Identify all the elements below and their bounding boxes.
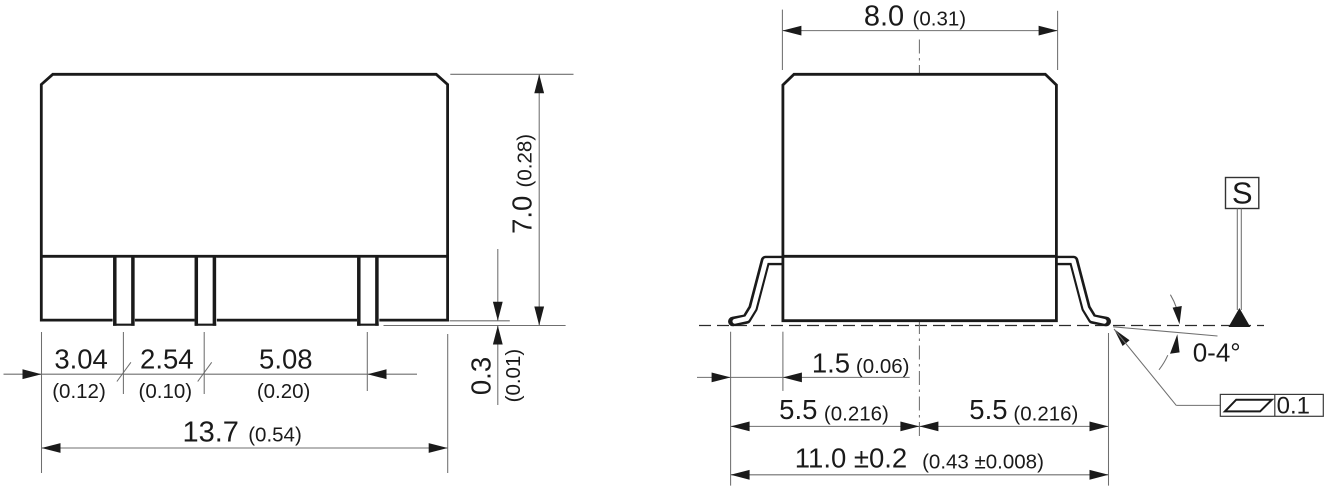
standoff dim 0.3 lower arrow: [493, 326, 503, 406]
standoff dim 0.3 upper arrow: [493, 249, 503, 321]
flatness feature control frame: [1220, 394, 1323, 416]
right view divider line: [783, 255, 1057, 258]
svg-text:0.3: 0.3: [466, 357, 497, 395]
extension line body bottom (0.3): [450, 320, 510, 322]
arrow right: [1090, 422, 1109, 432]
extension line left foot tip: [730, 332, 732, 486]
svg-text:(0.31): (0.31): [913, 8, 967, 31]
right gull-wing lead: [1053, 261, 1106, 322]
svg-text:13.7: 13.7: [182, 416, 238, 448]
arrow right at centerline: [900, 422, 919, 432]
svg-text:(0.28): (0.28): [513, 134, 536, 188]
extension line body left edge: [782, 332, 784, 391]
leader arrow to foot: [1114, 329, 1220, 405]
extension line pin 2: [203, 332, 205, 394]
arrow down: [534, 307, 544, 326]
svg-text:(0.216): (0.216): [824, 402, 889, 425]
tick at pin 1: [117, 362, 131, 381]
arrow up: [534, 74, 544, 93]
datum triangle: [1229, 308, 1251, 327]
svg-text:3.04: 3.04: [54, 343, 108, 374]
angle arc lower with up arrow: [1159, 334, 1180, 370]
extension line right body edge: [447, 334, 449, 473]
dim line 5.5 right: [919, 425, 1108, 427]
left outside arrow: [23, 369, 42, 379]
right outside arrow at pin 3: [368, 369, 387, 379]
svg-text:5.5: 5.5: [969, 394, 1007, 425]
outside arrow at body edge: [783, 373, 802, 383]
dim line 1.5: [697, 376, 910, 378]
arrow right: [429, 443, 448, 453]
svg-text:2.54: 2.54: [140, 343, 194, 374]
svg-text:(0.54): (0.54): [248, 423, 302, 446]
left view divider line: [40, 255, 449, 258]
right view body outline: [783, 74, 1057, 320]
svg-text:(0.06): (0.06): [856, 355, 910, 378]
outside arrow at foot tip: [712, 373, 731, 383]
pin 1: [113, 256, 135, 325]
dim line 11.0: [731, 474, 1109, 476]
height dimension line 7.0: [538, 74, 540, 325]
svg-text:1.5: 1.5: [812, 348, 850, 379]
arrow right: [1090, 470, 1109, 480]
svg-text:8.0: 8.0: [864, 0, 904, 32]
svg-text:11.0 ±0.2: 11.0 ±0.2: [795, 443, 907, 474]
extension line body top (7.0): [450, 73, 573, 75]
angle arc upper with down arrow: [1170, 295, 1181, 325]
datum S box: [1226, 178, 1259, 209]
dim line 5.5 left: [731, 425, 920, 427]
arrow left at centerline: [919, 422, 938, 432]
top dimension line 8.0: [782, 30, 1057, 32]
extension line right foot tip: [1108, 333, 1110, 486]
svg-text:(0.20): (0.20): [257, 380, 311, 403]
frame divider: [1274, 394, 1276, 416]
pitch dimension line: [4, 373, 418, 375]
flatness symbol parallelogram: [1225, 400, 1272, 412]
svg-text:7.0: 7.0: [507, 196, 538, 234]
left gull-wing lead: [733, 261, 786, 322]
arrow right: [1039, 26, 1058, 36]
svg-text:(0.216): (0.216): [1013, 402, 1078, 425]
seating plane dashed line: [699, 325, 1264, 327]
extension line 8.0 right: [1057, 11, 1059, 70]
pin 2: [195, 256, 217, 325]
extension line 8.0 left: [781, 10, 783, 70]
svg-text:(0.10): (0.10): [139, 380, 193, 403]
arrow left: [782, 26, 801, 36]
arrow left: [731, 470, 750, 480]
svg-text:0-4°: 0-4°: [1193, 337, 1241, 367]
svg-text:5.08: 5.08: [259, 343, 313, 374]
coplanarity angle line: [1113, 327, 1217, 336]
svg-text:5.5: 5.5: [779, 394, 817, 425]
vertical centerline dash-dot: [918, 40, 920, 439]
svg-text:S: S: [1232, 175, 1253, 210]
extension line pin 1: [122, 332, 124, 394]
left view body outline: [41, 74, 447, 320]
pin 3: [357, 256, 379, 325]
extension line pin 3: [366, 332, 368, 391]
svg-text:0.1: 0.1: [1277, 392, 1310, 419]
arrow left: [42, 443, 61, 453]
extension seating line (0.3 / 7.0): [384, 325, 566, 327]
svg-text:(0.01): (0.01): [502, 349, 525, 403]
overall width dimension line 13.7: [42, 447, 448, 449]
svg-text:(0.12): (0.12): [52, 380, 106, 403]
extension line left body edge: [41, 332, 43, 473]
tick at pin 2: [198, 362, 212, 381]
datum stem double line: [1237, 209, 1241, 311]
arrow left: [731, 422, 750, 432]
svg-text:(0.43 ±0.008): (0.43 ±0.008): [922, 450, 1044, 473]
